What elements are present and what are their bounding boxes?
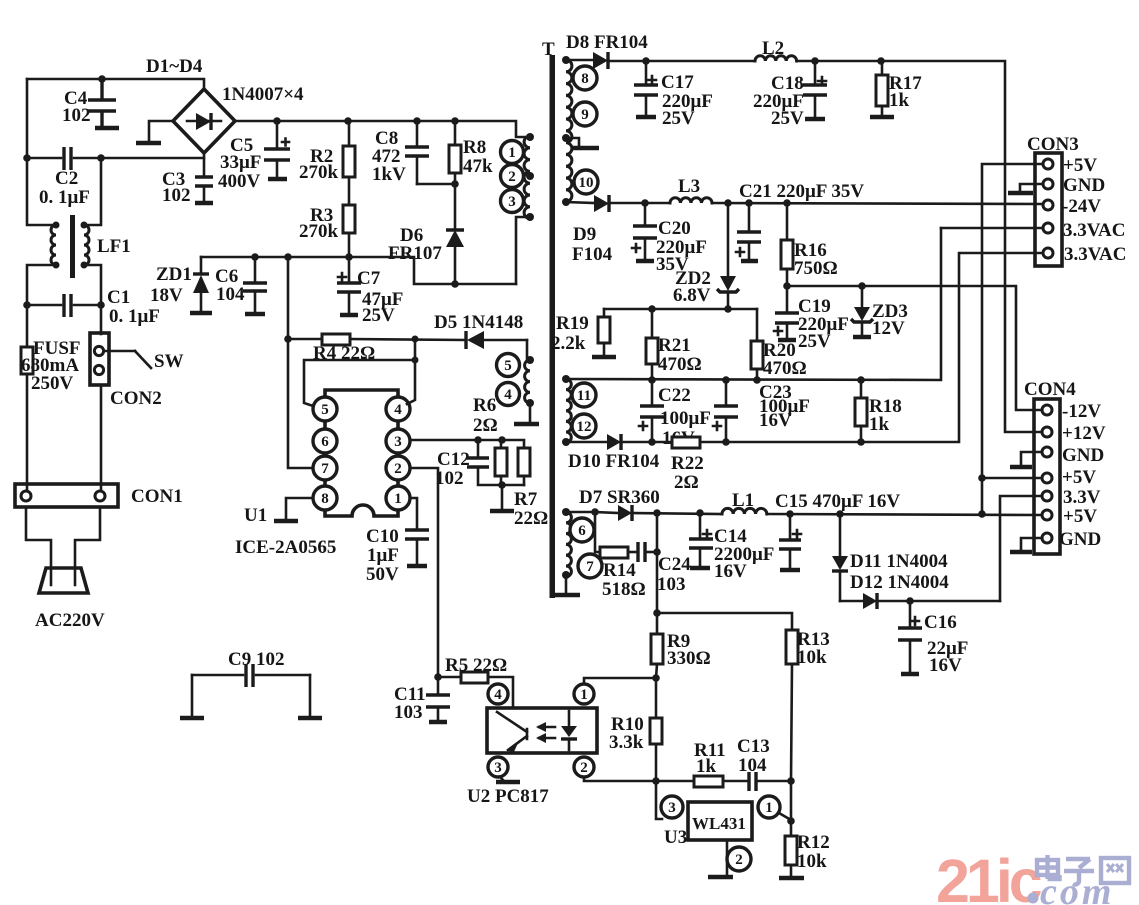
svg-text:100μF: 100μF	[660, 408, 711, 429]
svg-text:25V: 25V	[771, 108, 804, 129]
svg-text:104: 104	[738, 755, 767, 776]
svg-text:3: 3	[494, 760, 502, 776]
svg-text:C10: C10	[366, 526, 399, 547]
ground: secondary mid tap	[566, 138, 579, 146]
pin 11	[572, 383, 596, 407]
svg-text:9: 9	[581, 107, 589, 123]
diode D6 FR107	[454, 184, 457, 230]
resistor R3 270k	[343, 205, 355, 233]
svg-text:330Ω: 330Ω	[667, 648, 711, 669]
resistor R21 470ohm	[651, 309, 654, 338]
svg-text:7: 7	[586, 559, 594, 575]
svg-text:518Ω: 518Ω	[602, 579, 646, 600]
pin 2	[386, 456, 410, 480]
resistor R11 1k	[656, 780, 694, 783]
wire: lower tier to CON3	[700, 253, 959, 442]
pin GND	[1042, 533, 1052, 543]
shunt reg U3 WL431 body	[688, 802, 752, 840]
fuse FUSF 680mA 250V	[26, 305, 29, 347]
capacitor C15 470uF 16V	[789, 514, 792, 540]
ground: CON3 GND chassis	[1020, 184, 1043, 192]
svg-text:1: 1	[765, 800, 773, 816]
svg-text:25V: 25V	[798, 331, 831, 352]
svg-text:+5V: +5V	[1063, 506, 1097, 527]
capacitor C13 104	[747, 772, 750, 791]
capacitor C17 220uF 25V	[645, 61, 648, 84]
node: junction left/C2	[23, 154, 31, 162]
capacitor C11 103	[437, 677, 440, 695]
diode D9 F104	[566, 202, 594, 203]
svg-text:0. 1μF: 0. 1μF	[109, 306, 160, 327]
svg-text:C20: C20	[658, 218, 691, 239]
pin 1	[386, 486, 410, 510]
svg-text:L2: L2	[762, 38, 784, 59]
pin -12V	[1042, 405, 1052, 415]
svg-text:2: 2	[735, 852, 743, 868]
pin 4	[488, 684, 508, 704]
svg-text:D11 1N4004: D11 1N4004	[850, 551, 948, 572]
wire: U3 cathode to divider	[779, 813, 791, 820]
svg-text:1μF: 1μF	[367, 545, 399, 566]
svg-text:3: 3	[508, 194, 516, 210]
svg-text:103: 103	[657, 574, 686, 595]
wire: 3.3VAC 1	[941, 227, 1043, 230]
svg-text:C24: C24	[658, 554, 691, 575]
resistor R17 1k	[876, 75, 888, 106]
wire: 3.3VAC upper tier y380	[566, 228, 941, 380]
svg-text:1k: 1k	[696, 756, 717, 777]
pin 3	[488, 757, 508, 777]
svg-text:104: 104	[216, 284, 245, 305]
svg-text:L3: L3	[678, 176, 700, 197]
svg-text:22Ω: 22Ω	[514, 508, 548, 529]
svg-text:C22: C22	[658, 385, 691, 406]
capacitor C10 1uF 50V	[410, 498, 417, 530]
svg-text:-24V: -24V	[1062, 196, 1101, 217]
resistor R8 47k	[449, 145, 461, 173]
resistor R18 1k	[860, 380, 863, 398]
svg-text:ICE-2A0565: ICE-2A0565	[235, 537, 336, 558]
svg-text:ZD1: ZD1	[156, 264, 192, 285]
svg-text:U1: U1	[244, 505, 267, 526]
pin 6	[570, 518, 594, 542]
svg-text:C16: C16	[924, 612, 957, 633]
svg-text:AC220V: AC220V	[35, 610, 105, 631]
ground: bridge stub bar	[136, 141, 161, 146]
svg-text:R6: R6	[473, 395, 496, 416]
svg-text:CON3: CON3	[1027, 134, 1079, 155]
svg-text:GND: GND	[1062, 445, 1104, 466]
node: junction C4 tap	[98, 75, 106, 83]
svg-text:U2 PC817: U2 PC817	[467, 786, 549, 807]
pin 7	[313, 456, 337, 480]
svg-text:U3: U3	[664, 827, 687, 848]
ground: U2 pin3	[500, 777, 503, 780]
optocoupler U2 PC817 body	[487, 708, 597, 753]
svg-text:8: 8	[321, 491, 329, 507]
svg-text:LF1: LF1	[97, 236, 131, 257]
capacitor C20 220uF 35V	[644, 203, 647, 226]
svg-text:+5V: +5V	[1063, 155, 1097, 176]
svg-text:2: 2	[580, 760, 588, 776]
svg-text:R5 22Ω: R5 22Ω	[445, 655, 507, 676]
svg-text:10k: 10k	[797, 647, 827, 668]
wire: +12V top rail	[608, 60, 755, 63]
svg-text:3.3k: 3.3k	[609, 732, 644, 753]
svg-text:4: 4	[394, 402, 402, 418]
svg-text:R8: R8	[463, 137, 486, 158]
wire: -24V rail to CON3	[712, 203, 1043, 204]
pin GND	[1043, 179, 1053, 189]
svg-text:2Ω: 2Ω	[674, 472, 699, 493]
diode D5 1N4148	[464, 331, 467, 349]
connector CON3	[1035, 153, 1062, 266]
pin 4	[497, 383, 520, 406]
svg-text:R19: R19	[556, 313, 589, 334]
capacitor C18 220uF 25V	[814, 61, 817, 85]
svg-text:D1~D4: D1~D4	[146, 56, 203, 77]
node: junction C2/right branch	[97, 154, 105, 162]
zener ZD2 6.8V	[727, 203, 730, 276]
wire: U2 pin1 to R9/R10 node	[584, 678, 656, 684]
svg-text:+5V: +5V	[1062, 467, 1096, 488]
transformer T core	[550, 55, 556, 598]
ground: CON4 GND2 chassis	[1021, 538, 1042, 551]
pin 3	[661, 796, 683, 818]
svg-text:16V: 16V	[929, 655, 962, 676]
capacitor C9 102	[192, 674, 243, 677]
svg-text:R21: R21	[658, 335, 691, 356]
capacitor C21 220uF 35V	[748, 203, 751, 232]
transformer secondary winding 8-9-10	[566, 60, 572, 202]
svg-text:16V: 16V	[714, 561, 747, 582]
inductor L1	[722, 508, 767, 514]
svg-text:C2: C2	[55, 168, 78, 189]
snubber R14 518ohm	[595, 512, 600, 552]
svg-text:C21 220μF 35V: C21 220μF 35V	[739, 181, 864, 202]
capacitor C7 47uF 25V	[348, 257, 351, 283]
ground: U3 anode	[726, 840, 729, 875]
switch SW	[104, 350, 135, 353]
wire: bridge AC stub	[149, 121, 173, 141]
svg-text:750Ω: 750Ω	[794, 258, 838, 279]
watermark dot	[1028, 893, 1039, 904]
pin 3	[501, 190, 524, 213]
svg-text:D8 FR104: D8 FR104	[566, 32, 648, 53]
svg-text:SW: SW	[154, 351, 184, 372]
svg-text:CON4: CON4	[1024, 379, 1076, 400]
pin -24V	[1043, 200, 1053, 210]
pin 2	[501, 165, 524, 188]
pin +5V	[1042, 510, 1052, 520]
wire: 3.3VAC lower tier y442	[621, 441, 672, 444]
ground: U1 pin8	[286, 498, 313, 519]
svg-text:16V: 16V	[759, 410, 792, 431]
capacitor C8 472 1kV	[416, 121, 419, 147]
resistor R16 750ohm	[781, 240, 793, 269]
svg-text:L1: L1	[732, 490, 754, 511]
pin 6	[313, 429, 337, 453]
wire: AC line top rail	[27, 79, 204, 89]
transformer secondary winding 6-7	[566, 512, 571, 577]
svg-text:7: 7	[321, 461, 329, 477]
pin 2	[727, 847, 751, 871]
svg-text:33μF: 33μF	[220, 152, 261, 173]
pin 5	[313, 397, 337, 421]
node: feedback junction	[434, 673, 442, 681]
svg-text:11: 11	[577, 388, 591, 404]
wire: 3.3VAC 2	[961, 252, 1043, 255]
diode D10 FR104	[566, 441, 607, 444]
wire: right branch down to LF1	[84, 158, 101, 225]
wire: VCC vertical to U1 pin7	[288, 257, 313, 468]
capacitor C12 102	[477, 440, 480, 458]
wire: CON4 +5V pin feed	[982, 477, 1042, 480]
svg-text:D5 1N4148: D5 1N4148	[434, 312, 523, 333]
pin 3.3VAC	[1043, 248, 1053, 258]
bridge rectifier D1~D4 1N4007x4	[173, 89, 235, 153]
pin 8	[313, 486, 337, 510]
wire: C8 bottom to R8 bottom	[417, 183, 455, 186]
svg-text:102: 102	[62, 105, 91, 126]
pin 4	[386, 397, 410, 421]
filter choke LF1	[70, 215, 75, 278]
wire: R9/R13 feed row y613	[657, 613, 792, 630]
svg-text:3: 3	[394, 434, 402, 450]
svg-text:6: 6	[578, 523, 586, 539]
pin +5V	[1042, 473, 1052, 483]
svg-text:C7: C7	[357, 268, 381, 289]
AC plug AC220V	[39, 568, 88, 593]
connector CON2	[100, 305, 103, 334]
pin 9	[573, 102, 597, 126]
svg-text:103: 103	[394, 702, 423, 723]
ground: CON4 GND1 chassis	[1021, 452, 1042, 466]
svg-text:F104: F104	[572, 244, 613, 265]
svg-text:12: 12	[577, 419, 592, 435]
wire: rail after L2 to CON4 +12V	[797, 61, 1043, 432]
svg-text:D12 1N4004: D12 1N4004	[850, 572, 949, 593]
diode D12 1N4004	[840, 600, 863, 603]
wire: D7 node vertical	[656, 513, 659, 634]
svg-text:12V: 12V	[872, 318, 905, 339]
svg-text:8: 8	[581, 71, 589, 87]
svg-text:D9: D9	[573, 224, 596, 245]
wire: aux rail y257	[201, 257, 516, 284]
svg-text:2: 2	[508, 169, 516, 185]
svg-text:470Ω: 470Ω	[763, 358, 807, 379]
transformer secondary winding 11-12	[566, 379, 571, 443]
svg-text:1: 1	[580, 687, 588, 703]
wire: U2 pin2 row	[584, 777, 656, 781]
svg-text:47k: 47k	[463, 156, 493, 177]
capacitor C24 103	[636, 542, 639, 562]
wire: +5V rail y514	[632, 513, 722, 514]
capacitor C16 22uF 16V	[909, 601, 912, 628]
wire: 3.3V node	[877, 600, 1000, 603]
svg-text:4: 4	[494, 687, 502, 703]
svg-text:C1: C1	[107, 287, 130, 308]
pin 7	[578, 554, 602, 578]
diode D7 SR360	[566, 511, 595, 514]
svg-text:R7: R7	[514, 489, 538, 510]
watermark chinese 电子网	[1037, 855, 1129, 885]
svg-text:1k: 1k	[869, 414, 890, 435]
zener ZD1 18V	[200, 257, 203, 274]
svg-text:25V: 25V	[662, 108, 695, 129]
inductor L2	[755, 56, 797, 61]
wire: +5V feed to CON3 and CON4	[982, 164, 1043, 514]
svg-text:3.3VAC: 3.3VAC	[1064, 244, 1126, 265]
pin GND	[1042, 447, 1052, 457]
ground: winding 7 return	[565, 575, 568, 593]
wire: LF1 bottoms	[27, 265, 56, 305]
capacitor C5 33uF 400V	[276, 121, 279, 149]
capacitor C22 100uF 16V	[651, 380, 654, 406]
resistor R9 330ohm	[651, 634, 663, 664]
resistor R19 2.2k	[603, 309, 606, 317]
pin +5V	[1043, 159, 1053, 169]
pin 1	[758, 796, 780, 818]
resistor R22 2ohm	[672, 437, 700, 448]
capacitor C4	[100, 79, 103, 100]
svg-text:18V: 18V	[150, 285, 183, 306]
svg-text:1k: 1k	[889, 90, 910, 111]
resistor R4 22ohm	[288, 338, 322, 341]
svg-text:GND: GND	[1063, 175, 1105, 196]
wire: D5 to aux winding	[527, 340, 530, 360]
wire: U1 pin3 row	[410, 440, 524, 448]
wire: left AC vertical	[27, 79, 56, 225]
wire: U1 pin2 to feedback	[410, 468, 438, 677]
svg-text:C9 102: C9 102	[228, 649, 284, 670]
wire: CON1 to plug	[26, 507, 51, 585]
svg-text:4: 4	[504, 387, 512, 403]
ground: aux winding return	[529, 403, 532, 422]
resistor R5 22ohm	[438, 676, 461, 679]
pin +12V	[1042, 427, 1052, 437]
wire: 12V reg rail y286	[787, 286, 1043, 410]
svg-text:R22: R22	[671, 453, 704, 474]
svg-text:T: T	[542, 39, 555, 60]
svg-text:C13: C13	[737, 736, 770, 757]
transformer aux winding 5-4	[525, 360, 530, 403]
svg-text:1N4007×4: 1N4007×4	[222, 84, 304, 105]
svg-text:C12: C12	[437, 449, 470, 470]
svg-text:50V: 50V	[366, 564, 399, 585]
capacitor C3	[203, 153, 206, 177]
pin 12	[572, 414, 596, 438]
capacitor C19 220uF 25V	[786, 286, 789, 313]
pin 8	[573, 66, 597, 90]
svg-text:D10 FR104: D10 FR104	[568, 451, 660, 472]
svg-text:1kV: 1kV	[372, 164, 406, 185]
pin 1	[501, 141, 524, 164]
svg-text:6.8V: 6.8V	[673, 285, 711, 306]
resistor R7 22ohm (vertical)	[518, 448, 530, 476]
resistor R6 2ohm (vertical)	[495, 448, 507, 476]
wire: U3 ref loop	[656, 781, 662, 819]
wire: pin4 feedback loop	[407, 339, 415, 404]
svg-text:5: 5	[504, 358, 512, 374]
svg-text:6: 6	[321, 434, 329, 450]
resistor R10 3.3k	[655, 678, 658, 718]
diode D11 1N4004	[839, 514, 842, 556]
resistor R13 10k	[786, 630, 798, 664]
wire: primary bottom to snubber	[516, 217, 530, 284]
wire: CON4 3.3V pin feed	[1000, 496, 1042, 601]
svg-text:3.3VAC: 3.3VAC	[1063, 220, 1125, 241]
svg-text:3.3V: 3.3V	[1063, 487, 1101, 508]
diode D8 FR104	[566, 59, 593, 62]
pin 3.3VAC	[1043, 223, 1053, 233]
svg-text:2Ω: 2Ω	[473, 415, 498, 436]
wire: +5V rail after L1	[767, 514, 1043, 515]
pin 2	[574, 757, 594, 777]
wire: ZD2 reference row y309	[604, 308, 757, 311]
resistor R2 270k	[343, 146, 355, 177]
wire: rectified HV rail	[235, 121, 528, 137]
svg-text:0. 1μF: 0. 1μF	[39, 187, 90, 208]
svg-text:10k: 10k	[797, 851, 827, 872]
svg-text:102: 102	[162, 185, 191, 206]
svg-text:2.2k: 2.2k	[551, 333, 586, 354]
wire: -24V rail	[609, 202, 670, 205]
capacitor C14 2200uF 16V	[699, 513, 702, 539]
pin 1	[574, 684, 594, 704]
svg-text:-12V: -12V	[1062, 401, 1101, 422]
svg-text:R12: R12	[797, 832, 830, 853]
svg-text:250V: 250V	[31, 373, 74, 394]
svg-text:400V: 400V	[218, 171, 261, 192]
svg-text:10: 10	[579, 175, 594, 191]
capacitor C1	[23, 301, 31, 309]
svg-text:CON2: CON2	[110, 388, 162, 409]
capacitor C2	[27, 157, 61, 160]
svg-text:CON1: CON1	[131, 486, 183, 507]
connector CON4	[1034, 399, 1060, 554]
U2 internal phototransistor	[497, 712, 527, 750]
svg-text:21ic: 21ic	[936, 847, 1042, 905]
svg-text:5: 5	[321, 402, 329, 418]
zener ZD3 12V	[861, 286, 864, 307]
pin 3.3V	[1042, 491, 1052, 501]
resistor R20 470ohm	[756, 309, 759, 341]
pin 10	[574, 170, 598, 194]
U2 internal LED	[568, 711, 571, 726]
capacitor C23 100uF 16V	[725, 380, 728, 406]
svg-text:1: 1	[508, 145, 516, 161]
svg-text:270k: 270k	[299, 162, 339, 183]
connector CON1	[15, 484, 118, 507]
transformer primary winding 1-2-3	[524, 136, 530, 219]
pin 5	[497, 354, 520, 377]
svg-text:GND: GND	[1059, 529, 1101, 550]
ground: R6/R7	[501, 485, 504, 509]
svg-text:D7 SR360: D7 SR360	[579, 487, 660, 508]
svg-text:3: 3	[668, 800, 676, 816]
svg-text:R14: R14	[603, 560, 636, 581]
svg-text:1: 1	[394, 491, 402, 507]
resistor R12 10k	[790, 781, 793, 836]
IC U1 ICE-2A0565 body	[325, 390, 398, 516]
capacitor C6 104	[254, 257, 257, 283]
svg-text:C17: C17	[661, 72, 694, 93]
inductor L3	[670, 198, 712, 203]
svg-text:270k: 270k	[299, 221, 339, 242]
svg-text:WL431: WL431	[692, 814, 746, 833]
svg-text:2: 2	[394, 461, 402, 477]
